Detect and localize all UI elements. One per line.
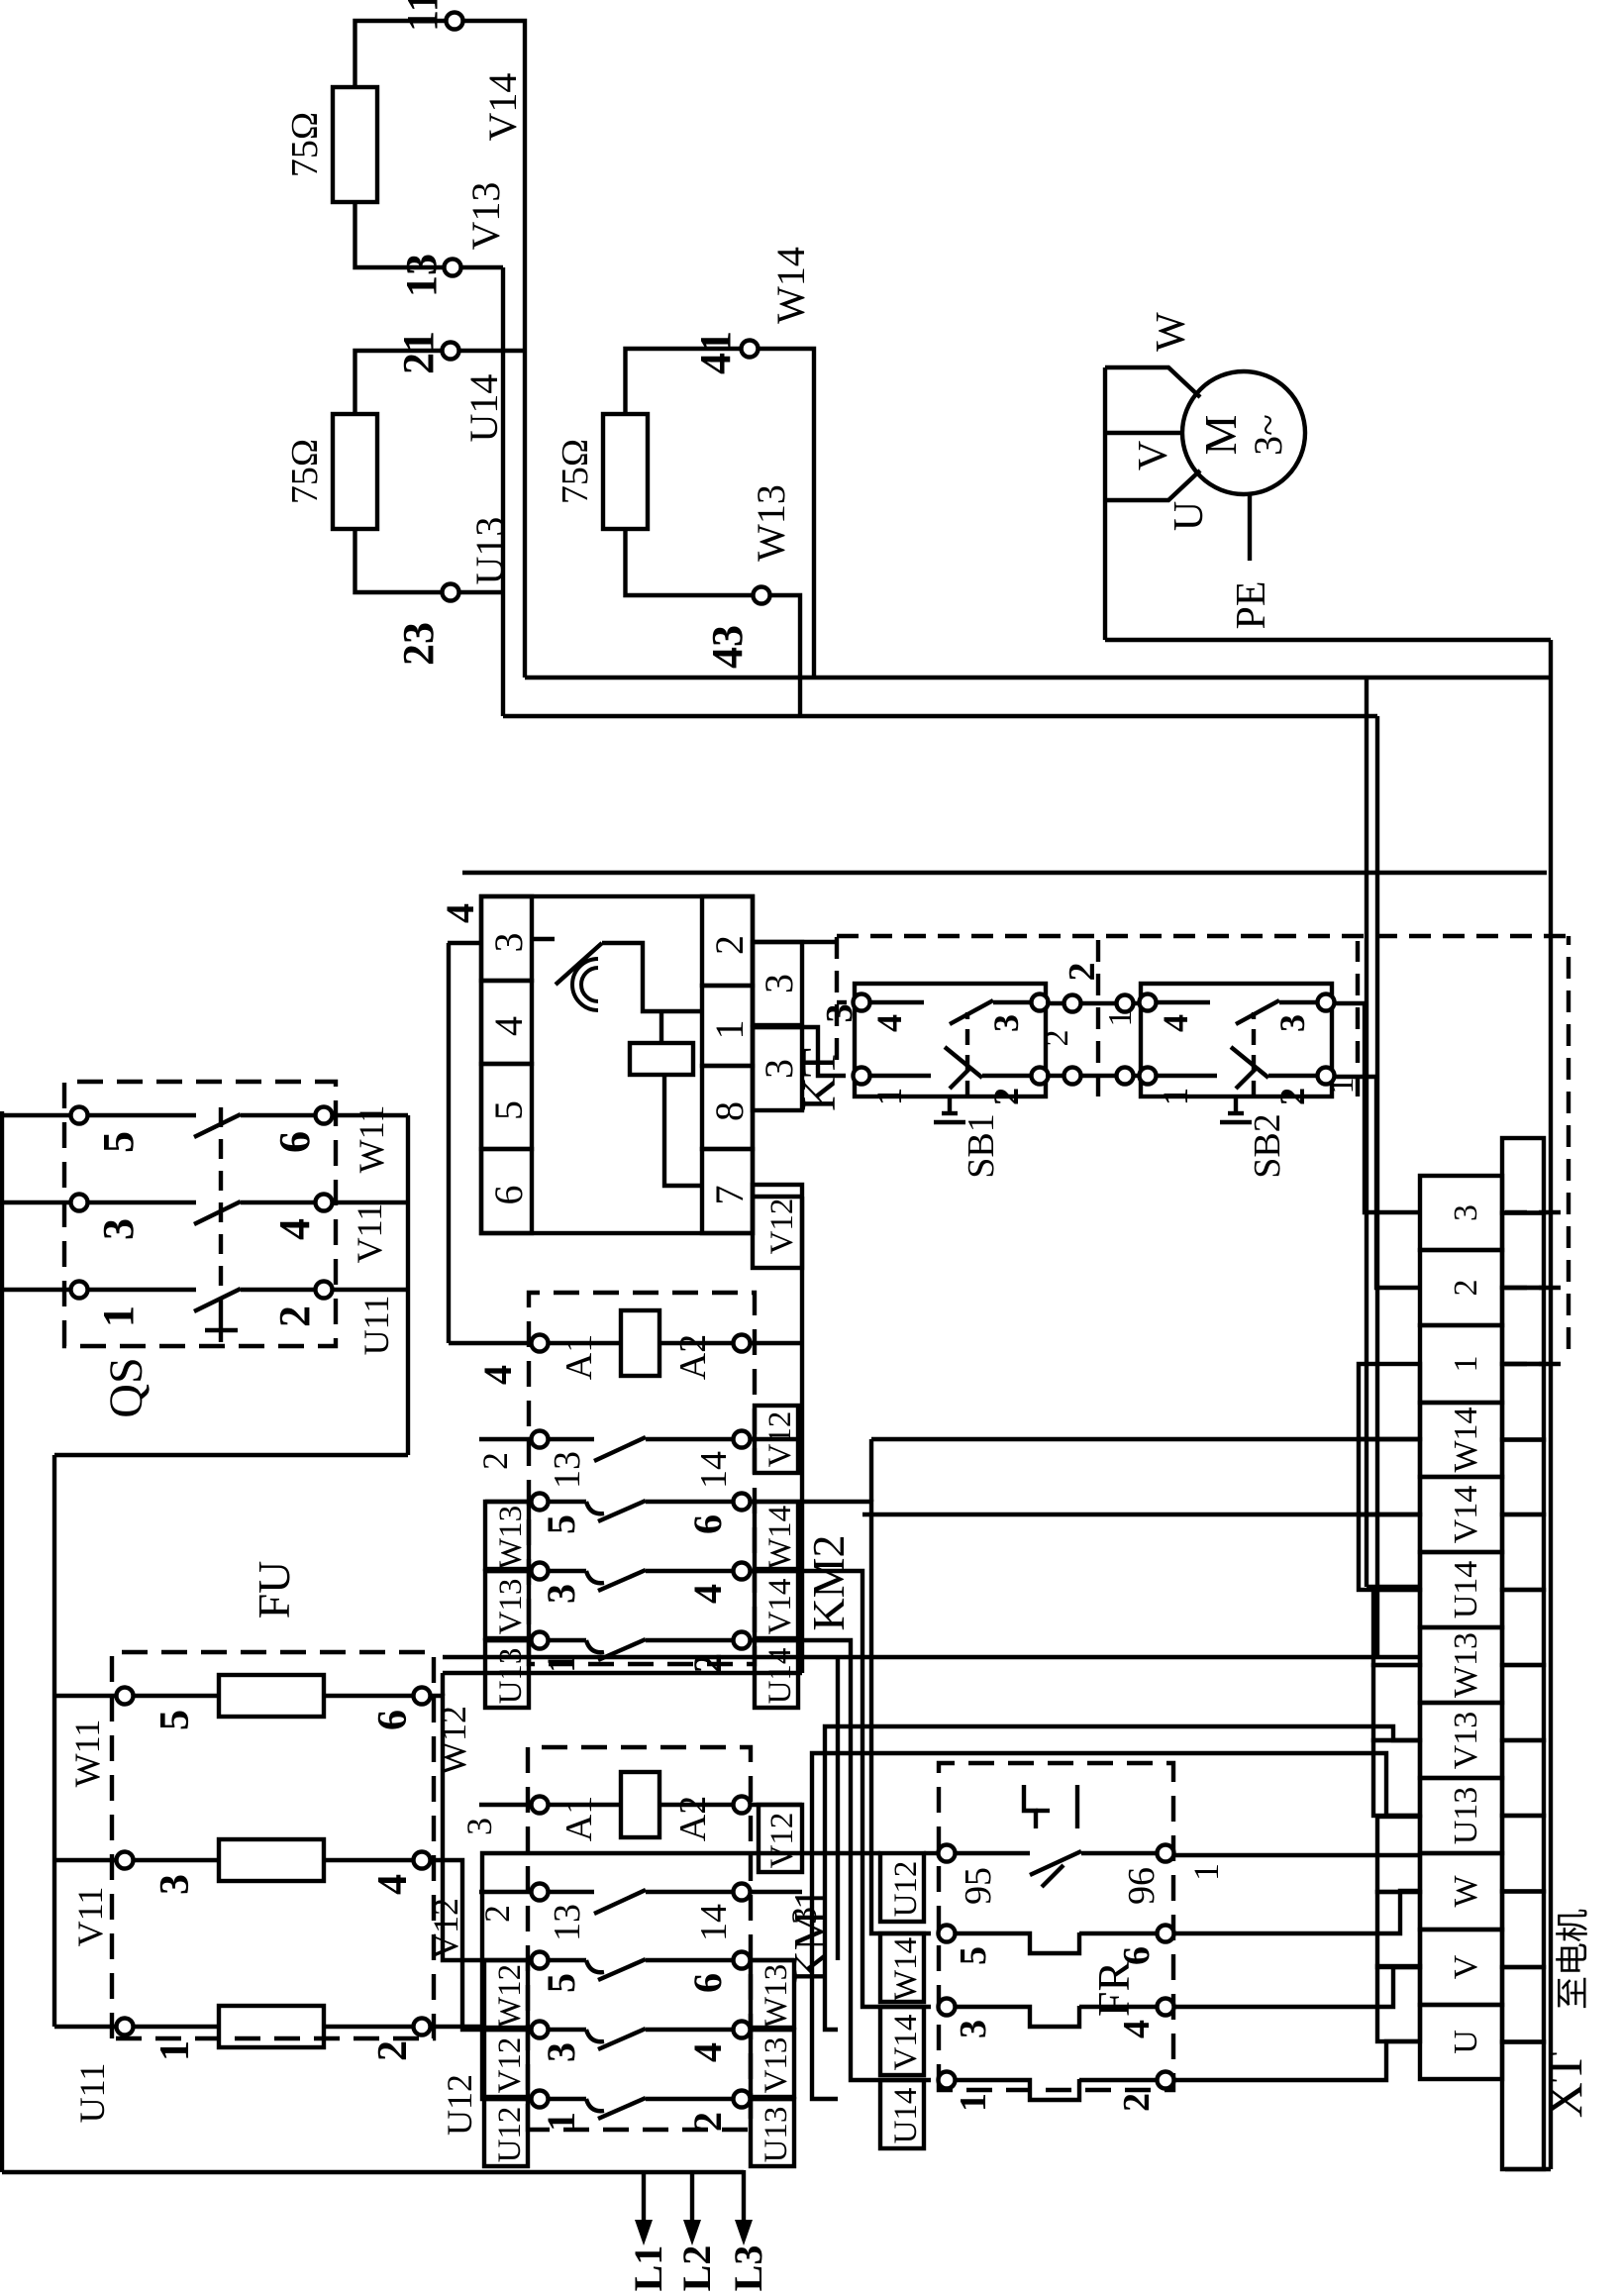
svg-text:SB1: SB1 [961, 1113, 1002, 1178]
svg-text:PE: PE [1229, 580, 1274, 629]
svg-text:U13: U13 [759, 2107, 794, 2163]
svg-text:V11: V11 [70, 1887, 110, 1947]
svg-text:U14: U14 [762, 1648, 798, 1705]
svg-text:3~: 3~ [1246, 414, 1290, 456]
svg-text:L3: L3 [726, 2245, 770, 2292]
svg-text:V14: V14 [1448, 1486, 1484, 1544]
svg-text:1: 1 [1156, 1088, 1195, 1105]
svg-text:V13: V13 [463, 182, 508, 251]
svg-text:U: U [1166, 501, 1212, 531]
svg-text:14: 14 [693, 1451, 735, 1489]
svg-text:U12: U12 [492, 2107, 528, 2163]
svg-text:V12: V12 [426, 1898, 465, 1959]
svg-text:5: 5 [539, 1514, 583, 1534]
svg-text:M: M [1195, 415, 1246, 456]
svg-text:3: 3 [1448, 1204, 1484, 1221]
svg-text:4: 4 [370, 1874, 416, 1895]
svg-text:W13: W13 [1448, 1632, 1484, 1698]
svg-text:13: 13 [397, 254, 446, 297]
svg-text:至电机: 至电机 [1555, 1909, 1592, 2010]
svg-text:2: 2 [1272, 1088, 1312, 1105]
svg-text:V12: V12 [492, 2037, 528, 2094]
svg-text:95: 95 [958, 1867, 999, 1905]
svg-text:14: 14 [693, 1904, 735, 1941]
svg-text:3: 3 [757, 1059, 801, 1079]
svg-text:W11: W11 [67, 1720, 107, 1788]
svg-text:5: 5 [94, 1131, 143, 1153]
svg-text:A2: A2 [672, 1796, 714, 1841]
svg-text:96: 96 [1121, 1867, 1163, 1905]
svg-text:5: 5 [486, 1100, 531, 1120]
svg-text:3: 3 [819, 1004, 861, 1023]
svg-text:4: 4 [486, 1016, 531, 1036]
svg-text:L2: L2 [674, 2245, 719, 2292]
svg-text:3: 3 [953, 2020, 994, 2038]
svg-text:KM2: KM2 [803, 1534, 854, 1630]
svg-text:8: 8 [707, 1101, 752, 1121]
svg-text:6: 6 [685, 1973, 730, 1993]
svg-text:2: 2 [685, 1653, 730, 1673]
svg-text:W13: W13 [493, 1506, 529, 1569]
svg-text:W11: W11 [352, 1105, 391, 1174]
svg-text:U14: U14 [461, 374, 506, 443]
svg-text:U12: U12 [440, 2074, 479, 2136]
svg-text:W14: W14 [888, 1937, 924, 2001]
svg-text:3: 3 [459, 1818, 499, 1835]
svg-text:21: 21 [394, 331, 443, 374]
svg-text:4: 4 [1116, 2020, 1158, 2038]
svg-text:1: 1 [539, 2112, 583, 2132]
svg-text:V12: V12 [764, 1813, 800, 1869]
svg-text:V13: V13 [493, 1579, 529, 1635]
svg-text:5: 5 [152, 1710, 198, 1730]
svg-text:U11: U11 [72, 2063, 112, 2124]
svg-text:FU: FU [249, 1561, 299, 1619]
svg-text:V14: V14 [888, 2015, 924, 2071]
svg-text:13: 13 [547, 1904, 588, 1941]
svg-text:6: 6 [370, 1710, 416, 1730]
svg-text:1: 1 [953, 2093, 994, 2112]
svg-text:V11: V11 [350, 1203, 389, 1264]
svg-text:7: 7 [707, 1186, 752, 1205]
svg-text:75Ω: 75Ω [555, 439, 596, 504]
svg-text:1: 1 [707, 1020, 752, 1040]
svg-text:6: 6 [486, 1186, 531, 1205]
svg-text:4: 4 [1156, 1014, 1195, 1032]
svg-text:V14: V14 [480, 73, 525, 142]
svg-text:1: 1 [1102, 1010, 1139, 1027]
svg-text:2: 2 [475, 1452, 515, 1470]
svg-text:1: 1 [1186, 1863, 1226, 1881]
svg-text:3: 3 [486, 933, 531, 953]
svg-text:U12: U12 [888, 1861, 924, 1918]
svg-text:U13: U13 [1448, 1787, 1484, 1845]
svg-text:A2: A2 [672, 1334, 714, 1380]
svg-text:1: 1 [1324, 1078, 1361, 1095]
svg-text:2: 2 [370, 2040, 416, 2061]
svg-text:1: 1 [539, 1653, 583, 1673]
svg-text:5: 5 [953, 1946, 994, 1965]
svg-text:XT: XT [1537, 2052, 1592, 2119]
svg-text:5: 5 [539, 1973, 583, 1993]
svg-text:3: 3 [986, 1014, 1026, 1032]
svg-text:2: 2 [1039, 1030, 1075, 1047]
svg-text:V13: V13 [759, 2037, 794, 2094]
svg-text:U11: U11 [356, 1296, 396, 1356]
svg-text:2: 2 [270, 1305, 319, 1327]
svg-text:4: 4 [270, 1218, 319, 1240]
svg-text:U14: U14 [888, 2088, 924, 2144]
svg-text:43: 43 [703, 625, 752, 669]
svg-text:U13: U13 [493, 1648, 529, 1705]
svg-text:V: V [1448, 1954, 1484, 1979]
svg-text:L1: L1 [626, 2245, 670, 2292]
svg-text:W: W [1149, 312, 1194, 352]
svg-text:6: 6 [685, 1514, 730, 1534]
svg-text:W12: W12 [492, 1964, 528, 2028]
svg-text:11: 11 [398, 0, 447, 32]
svg-text:2: 2 [707, 935, 752, 955]
svg-text:4: 4 [475, 1365, 520, 1385]
svg-text:3: 3 [539, 1584, 583, 1604]
svg-text:V13: V13 [1448, 1712, 1484, 1770]
svg-text:V12: V12 [762, 1411, 798, 1468]
svg-text:2: 2 [1448, 1280, 1484, 1297]
svg-text:U: U [1448, 2030, 1484, 2054]
svg-text:1: 1 [869, 1088, 909, 1105]
svg-text:W12: W12 [434, 1706, 473, 1775]
svg-text:4: 4 [869, 1014, 909, 1032]
svg-text:V: V [1131, 441, 1176, 470]
svg-text:2: 2 [1116, 2093, 1158, 2112]
svg-text:3: 3 [1272, 1014, 1312, 1032]
svg-text:V14: V14 [762, 1579, 798, 1635]
svg-text:75Ω: 75Ω [284, 439, 326, 504]
svg-text:13: 13 [547, 1451, 588, 1489]
svg-text:1: 1 [1448, 1356, 1484, 1373]
svg-text:1: 1 [94, 1305, 143, 1327]
svg-text:A1: A1 [558, 1796, 600, 1841]
svg-text:V12: V12 [764, 1199, 800, 1255]
svg-text:SB2: SB2 [1247, 1113, 1288, 1178]
svg-text:6: 6 [270, 1131, 319, 1153]
svg-text:1: 1 [152, 2040, 198, 2061]
svg-text:3: 3 [152, 1874, 198, 1895]
svg-text:2: 2 [685, 2112, 730, 2132]
svg-text:W14: W14 [768, 247, 813, 324]
svg-text:3: 3 [757, 974, 801, 993]
svg-text:U13: U13 [467, 517, 512, 585]
svg-text:3: 3 [539, 2042, 583, 2062]
svg-text:W14: W14 [1448, 1407, 1484, 1472]
svg-text:W14: W14 [762, 1506, 798, 1569]
svg-text:4: 4 [438, 903, 482, 923]
svg-text:3: 3 [784, 1907, 824, 1925]
svg-text:41: 41 [691, 331, 740, 374]
svg-text:4: 4 [685, 1584, 730, 1604]
svg-text:23: 23 [394, 622, 443, 666]
svg-text:75Ω: 75Ω [284, 112, 326, 177]
svg-text:A1: A1 [558, 1334, 600, 1380]
svg-text:FR: FR [1088, 1961, 1139, 2018]
svg-text:4: 4 [685, 2042, 730, 2062]
svg-text:3: 3 [94, 1218, 143, 1240]
svg-text:U14: U14 [1448, 1561, 1484, 1619]
svg-text:W13: W13 [749, 484, 793, 562]
svg-text:KM1: KM1 [784, 1887, 835, 1983]
svg-text:2: 2 [986, 1088, 1026, 1105]
svg-text:QS: QS [100, 1357, 152, 1417]
svg-text:W: W [1448, 1875, 1484, 1908]
